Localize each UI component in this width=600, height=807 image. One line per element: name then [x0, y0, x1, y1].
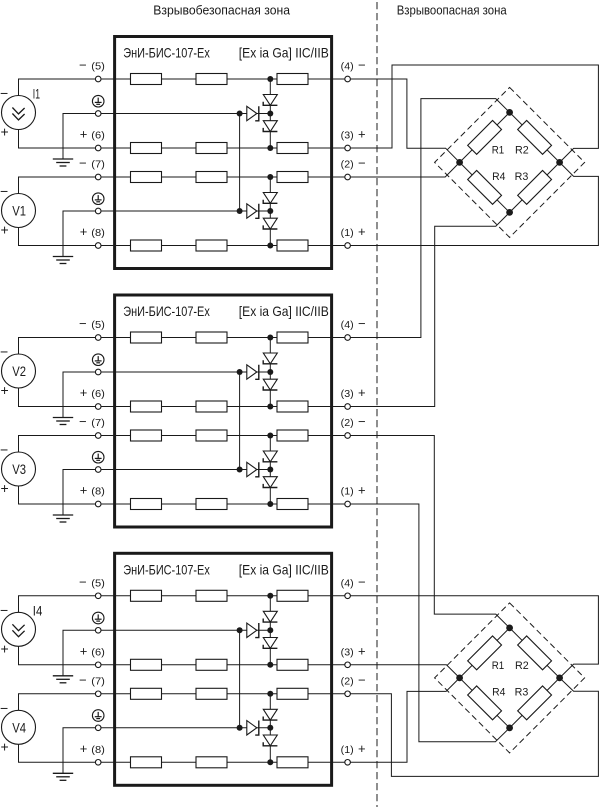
wire: block3 pin(3) to bridge2 left node: [348, 665, 460, 678]
zener VD5 (channel 2 lower): [263, 477, 277, 488]
wire: earth rail vertical link: [239, 372, 241, 470]
strain gauge R2 (bridge 2): [518, 636, 552, 670]
terminal pin 7: [95, 433, 101, 439]
fuse (row 7-2): [131, 430, 162, 441]
zener VD4 (channel 2 upper): [263, 709, 277, 720]
strain gauge R3 (bridge 2): [518, 686, 552, 720]
wire: source V2 plus to pin(6): [19, 387, 115, 407]
node earth rail 1: [237, 369, 243, 375]
barrier module U1 ЭнИ-БИС-107-Ex: [115, 37, 332, 269]
wire: earth rail 1 to shunt stack: [115, 629, 271, 631]
node stack1 mid: [267, 369, 273, 375]
wire: earth rail 2 to shunt stack: [115, 469, 271, 471]
svg-text:I4: I4: [33, 604, 43, 619]
wire: row pin7-pin2: [115, 435, 348, 437]
wire: row pin7-pin2: [115, 693, 348, 695]
wire: earth terminal 2 to ground: [63, 211, 115, 257]
svg-text:(5): (5): [91, 578, 105, 590]
wire: source I1 minus to pin(5): [19, 79, 115, 96]
svg-text:(6): (6): [91, 388, 105, 400]
svg-text:(7): (7): [91, 676, 105, 688]
svg-text:(2): (2): [341, 417, 354, 429]
svg-text:I1: I1: [33, 87, 40, 102]
bridge 1 right node: [556, 159, 563, 166]
svg-text:(3): (3): [341, 130, 354, 142]
svg-text:[Ex ia Ga] IIC/IIB: [Ex ia Ga] IIC/IIB: [239, 303, 329, 319]
svg-text:(2): (2): [341, 676, 354, 688]
svg-text:+: +: [358, 127, 366, 142]
wire: zener stack channel 2: [269, 694, 271, 763]
resistor (row 8-1, series 2): [277, 757, 308, 768]
svg-text:V1: V1: [12, 204, 26, 219]
strain gauge R2 (bridge 1): [518, 120, 552, 154]
earth symbol 1: [92, 612, 104, 624]
zener VD3 (channel 1 earth): [247, 623, 257, 637]
zener VD6 (channel 2 earth): [247, 462, 257, 476]
wire: row pin7-pin2: [115, 176, 348, 178]
zener VD4 (channel 2 upper): [263, 451, 277, 462]
earth symbol 1: [92, 95, 104, 107]
svg-text:+: +: [1, 222, 9, 238]
svg-text:−: −: [79, 58, 87, 73]
fuse (row 5-4): [131, 74, 162, 85]
wire: earth terminal 1 to ground: [63, 630, 115, 676]
node earth rail 2: [237, 725, 243, 731]
fuse (row 5-4): [131, 332, 162, 343]
wire: row pin6-pin3: [115, 406, 348, 408]
terminal pin 8: [95, 501, 101, 507]
ground (channel V2): [53, 417, 73, 419]
wire: source V1 plus to pin(8): [19, 227, 115, 246]
node earth rail 2: [237, 467, 243, 473]
terminal pin 6: [95, 404, 101, 410]
fuse (row 7-2): [131, 172, 162, 183]
ground (channel V3): [53, 514, 73, 516]
terminal pin 6: [95, 662, 101, 668]
terminal pin 3: [345, 662, 351, 668]
node stack1 bottom: [267, 662, 273, 668]
source V3 (voltage source): [2, 452, 36, 486]
fuse (row 6-3): [131, 659, 162, 670]
wire: block1 pin(1) to bridge1 right node: [348, 162, 599, 245]
bridge 1 left node: [456, 159, 463, 166]
resistor (row 8-1, series 2): [277, 499, 308, 510]
fuse (row 8-1): [131, 240, 162, 251]
wire: earth rail 1 to shunt stack: [115, 371, 271, 373]
wire: source V4 minus to pin(7): [19, 694, 115, 711]
wire: block1 pin(2) to bridge1 left node: [348, 162, 460, 177]
svg-text:(1): (1): [341, 227, 354, 239]
svg-text:+: +: [1, 480, 9, 496]
resistor (row 7-2, series 1): [196, 688, 227, 699]
node stack2 bottom: [267, 501, 273, 507]
node stack1 top: [267, 76, 273, 82]
wire: source V4 plus to pin(8): [19, 743, 115, 762]
svg-text:Взрывоопасная зона: Взрывоопасная зона: [397, 3, 508, 18]
terminal pin 5: [95, 76, 101, 82]
resistor (row 5-4, series 2): [277, 590, 308, 601]
node stack1 mid: [267, 627, 273, 633]
svg-text:+: +: [358, 741, 366, 756]
resistor (row 7-2, series 1): [196, 430, 227, 441]
wire: row pin6-pin3: [115, 147, 348, 149]
earth symbol 2: [92, 193, 104, 205]
svg-text:−: −: [358, 58, 366, 73]
node earth rail 1: [237, 111, 243, 117]
wire: earth terminal 2 to ground: [63, 728, 115, 774]
terminal pin 5: [95, 593, 101, 599]
barrier module U2 ЭнИ-БИС-107-Ex: [115, 295, 332, 527]
svg-text:+: +: [80, 385, 88, 400]
svg-text:+: +: [358, 644, 366, 659]
resistor (row 5-4, series 2): [277, 332, 308, 343]
wire: bridge1 bottom node to block2 pin(3): [348, 212, 510, 406]
svg-text:−: −: [0, 85, 8, 101]
node stack1 bottom: [267, 404, 273, 410]
source V2 (voltage source): [2, 354, 36, 388]
strain gauge R3 (bridge 1): [518, 170, 552, 204]
resistor (row 5-4, series 1): [196, 332, 227, 343]
node stack2 top: [267, 433, 273, 439]
zener VD5 (channel 2 lower): [263, 735, 277, 746]
svg-text:[Ex ia Ga] IIC/IIB: [Ex ia Ga] IIC/IIB: [239, 561, 329, 577]
source I4 (current source): [2, 612, 36, 646]
wire: block1 pin(4) to bridge1 left node: [348, 79, 460, 162]
wire: source V2 minus to pin(5): [19, 338, 115, 355]
svg-text:+: +: [358, 385, 366, 400]
wire: earth rail vertical link: [239, 630, 241, 728]
terminal pin 2: [345, 433, 351, 439]
terminal pin 8: [95, 243, 101, 249]
earth terminal 1: [95, 628, 101, 634]
wire: block3 pin(4) to bridge2 right node: [348, 596, 599, 678]
svg-text:(4): (4): [341, 578, 354, 590]
zener VD3 (channel 1 earth): [247, 365, 257, 379]
zener VD2 (channel 1 lower): [263, 638, 277, 649]
svg-text:+: +: [80, 127, 88, 142]
terminal pin 7: [95, 691, 101, 697]
svg-text:+: +: [80, 741, 88, 756]
svg-text:V2: V2: [12, 364, 26, 379]
resistor (row 8-1, series 1): [196, 757, 227, 768]
terminal pin 1: [345, 501, 351, 507]
zener VD2 (channel 1 lower): [263, 121, 277, 132]
zener VD6 (channel 2 earth): [247, 721, 257, 735]
bridge 2 dashed enclosure: [435, 603, 585, 753]
resistor (row 5-4, series 1): [196, 74, 227, 85]
wire: block1 pin(3) to bridge1 right node: [348, 65, 599, 162]
svg-text:R1: R1: [492, 660, 505, 672]
wire: block3 pin(1) to bridge2 left node: [348, 678, 460, 762]
svg-text:−: −: [0, 442, 8, 458]
zener VD1 (channel 1 upper): [263, 95, 277, 106]
node stack2 mid: [267, 725, 273, 731]
wire: row pin5-pin4: [115, 78, 348, 80]
terminal pin 7: [95, 174, 101, 180]
node stack2 top: [267, 691, 273, 697]
terminal pin 6: [95, 145, 101, 151]
bridge 1 top node: [506, 109, 513, 116]
ground (channel I1): [53, 158, 73, 160]
resistor (row 6-3, series 1): [196, 143, 227, 154]
svg-text:−: −: [358, 156, 366, 171]
zener VD1 (channel 1 upper): [263, 611, 277, 622]
svg-text:R2: R2: [515, 660, 529, 672]
bridge 1 bottom node: [506, 209, 513, 216]
svg-text:(4): (4): [341, 61, 354, 73]
source V4 (voltage source): [2, 710, 36, 744]
svg-text:R3: R3: [515, 687, 529, 699]
node stack2 mid: [267, 467, 273, 473]
wire: row pin5-pin4: [115, 337, 348, 339]
svg-text:(7): (7): [91, 417, 105, 429]
earth symbol 2: [92, 710, 104, 722]
node earth rail 1: [237, 627, 243, 633]
svg-text:−: −: [79, 414, 87, 429]
svg-text:(1): (1): [341, 486, 354, 498]
svg-text:−: −: [79, 673, 87, 688]
terminal pin 4: [345, 593, 351, 599]
svg-text:+: +: [80, 644, 88, 659]
fuse (row 6-3): [131, 143, 162, 154]
svg-text:−: −: [79, 575, 87, 590]
fuse (row 5-4): [131, 590, 162, 601]
svg-text:R4: R4: [492, 687, 505, 699]
svg-text:+: +: [1, 640, 9, 656]
earth terminal 1: [95, 369, 101, 375]
svg-text:+: +: [358, 483, 366, 498]
wire: zener stack channel 2: [269, 436, 271, 505]
wire: earth terminal 1 to ground: [63, 114, 115, 160]
bridge 2 right node: [556, 675, 563, 682]
svg-text:+: +: [1, 738, 9, 754]
wire: block2 pin(2) to bridge2 top node: [348, 436, 510, 628]
wire: earth rail 2 to shunt stack: [115, 210, 271, 212]
resistor (row 7-2, series 2): [277, 430, 308, 441]
terminal pin 4: [345, 335, 351, 341]
ground (channel V4): [53, 772, 73, 774]
resistor (row 7-2, series 1): [196, 172, 227, 183]
wire: row pin8-pin1: [115, 503, 348, 505]
wire: block3 pin(2) to bridge2 right node: [348, 678, 599, 777]
bridge 1 dashed enclosure: [435, 87, 585, 237]
terminal pin 2: [345, 691, 351, 697]
svg-text:(8): (8): [91, 227, 105, 239]
zener VD5 (channel 2 lower): [263, 218, 277, 229]
wire: source I4 plus to pin(6): [19, 645, 115, 665]
node stack2 bottom: [267, 759, 273, 765]
svg-text:(7): (7): [91, 159, 105, 171]
wire: earth rail 2 to shunt stack: [115, 727, 271, 729]
svg-text:(6): (6): [91, 647, 105, 659]
strain gauge R1 (bridge 2): [468, 636, 502, 670]
resistor (row 6-3, series 2): [277, 143, 308, 154]
svg-text:−: −: [358, 316, 366, 331]
svg-text:−: −: [79, 156, 87, 171]
svg-text:+: +: [80, 224, 88, 239]
svg-text:+: +: [1, 124, 9, 140]
svg-text:−: −: [0, 602, 8, 618]
terminal pin 4: [345, 76, 351, 82]
wire: bridge1 top node to block2 pin(4): [348, 99, 510, 338]
source V1 (voltage source): [2, 194, 36, 228]
wire: source V3 minus to pin(7): [19, 436, 115, 453]
terminal pin 1: [345, 760, 351, 766]
svg-text:−: −: [0, 700, 8, 716]
zener VD6 (channel 2 earth): [247, 204, 257, 218]
svg-text:Взрывобезопасная зона: Взрывобезопасная зона: [153, 3, 290, 18]
wire: source V3 plus to pin(8): [19, 485, 115, 504]
svg-text:(8): (8): [91, 486, 105, 498]
zener VD1 (channel 1 upper): [263, 353, 277, 364]
node stack1 top: [267, 335, 273, 341]
svg-text:+: +: [358, 224, 366, 239]
bridge 2 left node: [456, 675, 463, 682]
svg-text:−: −: [358, 673, 366, 688]
node stack1 mid: [267, 111, 273, 117]
node stack2 bottom: [267, 243, 273, 249]
earth terminal 2: [95, 467, 101, 473]
bridge 2 arm wires: [460, 628, 510, 678]
svg-text:+: +: [80, 483, 88, 498]
svg-text:(2): (2): [341, 159, 354, 171]
svg-text:(6): (6): [91, 130, 105, 142]
svg-text:ЭнИ-БИС-107-Ex: ЭнИ-БИС-107-Ex: [123, 561, 210, 577]
terminal pin 3: [345, 404, 351, 410]
wire: source V1 minus to pin(7): [19, 177, 115, 194]
svg-text:−: −: [0, 183, 8, 199]
wire: zener stack channel 1: [269, 338, 271, 407]
svg-text:+: +: [1, 382, 9, 398]
resistor (row 6-3, series 2): [277, 401, 308, 412]
resistor (row 6-3, series 2): [277, 659, 308, 670]
wire: earth rail 1 to shunt stack: [115, 113, 271, 115]
wire: earth terminal 2 to ground: [63, 470, 115, 516]
svg-text:(5): (5): [91, 61, 105, 73]
resistor (row 5-4, series 1): [196, 590, 227, 601]
svg-text:[Ex ia Ga] IIC/IIB: [Ex ia Ga] IIC/IIB: [239, 45, 329, 61]
earth terminal 1: [95, 111, 101, 117]
svg-text:(3): (3): [341, 388, 354, 400]
wire: row pin5-pin4: [115, 595, 348, 597]
svg-text:(1): (1): [341, 744, 354, 756]
svg-text:(5): (5): [91, 319, 105, 331]
fuse (row 8-1): [131, 499, 162, 510]
terminal pin 8: [95, 760, 101, 766]
bridge 2 top node: [506, 625, 513, 632]
resistor (row 7-2, series 2): [277, 688, 308, 699]
barrier module U3 ЭнИ-БИС-107-Ex: [115, 553, 332, 785]
resistor (row 8-1, series 1): [196, 499, 227, 510]
resistor (row 6-3, series 1): [196, 659, 227, 670]
svg-text:R1: R1: [492, 144, 505, 156]
fuse (row 7-2): [131, 688, 162, 699]
fuse (row 6-3): [131, 401, 162, 412]
wire: zener stack channel 1: [269, 596, 271, 665]
earth terminal 2: [95, 725, 101, 731]
bridge 2 bottom node: [506, 725, 513, 732]
node stack2 mid: [267, 208, 273, 214]
resistor (row 8-1, series 1): [196, 240, 227, 251]
svg-text:R2: R2: [515, 144, 529, 156]
svg-text:V3: V3: [12, 462, 26, 477]
wire: source I1 plus to pin(6): [19, 129, 115, 149]
wire: zener stack channel 2: [269, 177, 271, 246]
node stack1 top: [267, 593, 273, 599]
strain gauge R1 (bridge 1): [468, 120, 502, 154]
wire: earth rail vertical link: [239, 114, 241, 212]
fuse (row 8-1): [131, 757, 162, 768]
bridge 1 arm wires: [460, 112, 510, 162]
svg-text:−: −: [358, 414, 366, 429]
wire: zener stack channel 1: [269, 79, 271, 148]
wire: row pin6-pin3: [115, 664, 348, 666]
earth terminal 2: [95, 208, 101, 214]
earth symbol 2: [92, 451, 104, 463]
wire: earth terminal 1 to ground: [63, 372, 115, 418]
resistor (row 8-1, series 2): [277, 240, 308, 251]
svg-text:ЭнИ-БИС-107-Ex: ЭнИ-БИС-107-Ex: [123, 303, 210, 319]
zone divider (dashed): [376, 2, 378, 807]
terminal pin 5: [95, 335, 101, 341]
source I1 (current source): [2, 96, 36, 130]
svg-text:(3): (3): [341, 647, 354, 659]
wire: row pin8-pin1: [115, 761, 348, 763]
svg-text:R3: R3: [515, 171, 529, 183]
node stack1 bottom: [267, 145, 273, 151]
terminal pin 2: [345, 174, 351, 180]
svg-text:(8): (8): [91, 744, 105, 756]
node earth rail 2: [237, 208, 243, 214]
svg-text:R4: R4: [492, 171, 505, 183]
terminal pin 3: [345, 145, 351, 151]
zener VD4 (channel 2 upper): [263, 193, 277, 204]
svg-text:−: −: [79, 316, 87, 331]
node stack2 top: [267, 174, 273, 180]
svg-text:(4): (4): [341, 319, 354, 331]
strain gauge R4 (bridge 2): [468, 686, 502, 720]
ground (channel V1): [53, 256, 73, 258]
zener VD3 (channel 1 earth): [247, 106, 257, 120]
svg-text:ЭнИ-БИС-107-Ex: ЭнИ-БИС-107-Ex: [123, 45, 210, 61]
strain gauge R4 (bridge 1): [468, 170, 502, 204]
wire: block2 pin(1) to bridge2 bottom node: [348, 504, 510, 742]
earth symbol 1: [92, 354, 104, 366]
svg-text:V4: V4: [12, 720, 26, 735]
resistor (row 5-4, series 2): [277, 74, 308, 85]
svg-text:−: −: [358, 575, 366, 590]
wire: source I4 minus to pin(5): [19, 596, 115, 613]
zener VD2 (channel 1 lower): [263, 379, 277, 390]
resistor (row 7-2, series 2): [277, 172, 308, 183]
svg-text:−: −: [0, 344, 8, 360]
terminal pin 1: [345, 243, 351, 249]
ground (channel I4): [53, 675, 73, 677]
resistor (row 6-3, series 1): [196, 401, 227, 412]
wire: row pin8-pin1: [115, 245, 348, 247]
